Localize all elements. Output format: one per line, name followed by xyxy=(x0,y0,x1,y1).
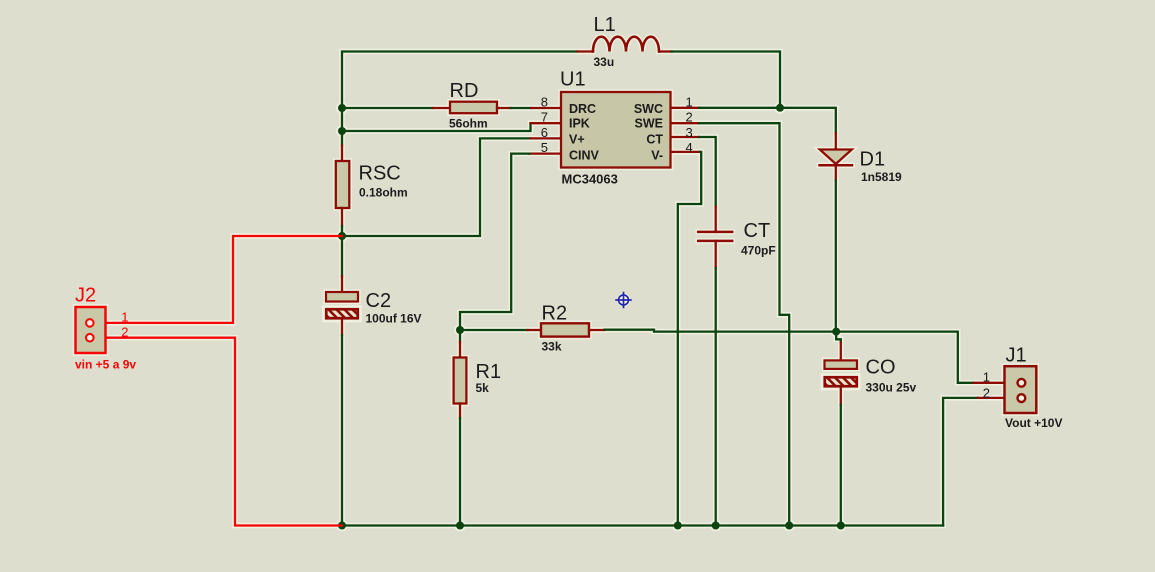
svg-text:CO: CO xyxy=(866,357,896,379)
U1 reference label xyxy=(560,69,586,91)
capacitor C2 negative hatched plate xyxy=(324,308,365,320)
wire R1 bottom to ground rail xyxy=(459,418,461,526)
wire RD to U1 pin 8 xyxy=(511,107,532,109)
pin 8 stub of U1 xyxy=(531,107,561,109)
wire R2 right pin stub xyxy=(589,329,605,331)
CO bottom pin stub xyxy=(840,387,842,405)
C2 bottom pin stub xyxy=(341,319,343,336)
node D junction dot (R1 / R2 / CINV) xyxy=(456,326,464,334)
svg-text:IPK: IPK xyxy=(569,117,590,131)
svg-text:3: 3 xyxy=(686,125,693,140)
svg-text:CT: CT xyxy=(646,133,663,147)
wire SWC: U1 pin1 to D1 anode xyxy=(699,108,836,133)
J1 pin 1 circle xyxy=(1018,379,1026,387)
J1 value label Vout +10V xyxy=(1005,416,1062,430)
svg-text:2: 2 xyxy=(983,385,990,400)
svg-text:SWE: SWE xyxy=(635,117,663,131)
svg-text:1n5819: 1n5819 xyxy=(861,170,902,184)
svg-text:7: 7 xyxy=(541,110,548,125)
svg-text:D1: D1 xyxy=(860,149,886,171)
svg-text:MC34063: MC34063 xyxy=(562,171,618,186)
svg-text:8: 8 xyxy=(541,94,548,109)
RD value label 56ohm xyxy=(449,117,488,131)
D1 reference label xyxy=(860,149,886,171)
svg-text:R2: R2 xyxy=(542,302,568,324)
pin 5 stub of U1 xyxy=(529,152,561,154)
svg-text:5k: 5k xyxy=(476,381,490,395)
U1 pin numbers xyxy=(541,94,693,155)
wire J1 pin 2 to ground rail xyxy=(943,398,978,526)
svg-text:RD: RD xyxy=(450,80,479,102)
resistor RSC body xyxy=(336,161,350,208)
J1 reference label xyxy=(1006,345,1027,367)
J2 reference label xyxy=(75,285,96,307)
CO reference label xyxy=(866,357,896,379)
pin 6 stub of U1 xyxy=(530,137,561,139)
node E junction dot (L1 right / SWC) xyxy=(776,104,784,112)
D1 cathode stub xyxy=(835,165,837,180)
R2 value label 33k xyxy=(542,340,562,354)
RSC top pin stub xyxy=(341,146,343,162)
J2 pin 2 circle xyxy=(86,334,94,342)
svg-text:J1: J1 xyxy=(1006,345,1027,367)
resistor R1 body xyxy=(454,358,467,404)
connector J1 body xyxy=(1005,366,1037,413)
wire J2 pin 1 red feed to node C xyxy=(90,236,342,323)
D1 value label 1n5819 xyxy=(861,170,902,184)
wire RD row: node A to RD left terminal xyxy=(342,107,433,109)
CO top pin stub xyxy=(840,343,842,361)
svg-text:2: 2 xyxy=(686,110,693,125)
J1 pin number 1 xyxy=(983,370,990,385)
svg-text:vin +5 a 9v: vin +5 a 9v xyxy=(75,357,136,371)
svg-text:1: 1 xyxy=(686,94,693,109)
C2 value label 100uf 16V xyxy=(366,311,422,325)
wire R2 left pin stub xyxy=(528,329,542,331)
svg-text:470pF: 470pF xyxy=(741,244,776,258)
pin 4 stub of U1 (V-) xyxy=(669,151,700,153)
D1 anode stub xyxy=(835,133,837,150)
R1 bottom pin stub xyxy=(459,404,461,419)
svg-text:L1: L1 xyxy=(594,14,616,36)
L1 value label 33u xyxy=(594,55,615,69)
connector J2 body (highlighted red) xyxy=(76,307,106,353)
J1 pin 2 circle xyxy=(1018,394,1026,402)
J2 value label vin +5 a 9v xyxy=(75,357,136,371)
resistor R2 body xyxy=(541,323,589,336)
op-amp / converter IC U1 body xyxy=(561,92,671,168)
wire RD left pin stub xyxy=(433,107,450,109)
inductor L1 xyxy=(578,37,672,52)
pin 7 stub of U1 xyxy=(531,122,562,124)
RSC value label 0.18ohm xyxy=(359,186,408,200)
svg-text:Vout +10V: Vout +10V xyxy=(1005,416,1062,430)
wire L1 left segment (top rail from node A to inductor) xyxy=(342,52,578,109)
node F junction dot (D1 / CO / output run) xyxy=(832,328,840,336)
CT bottom pin stub xyxy=(715,241,717,268)
svg-text:4: 4 xyxy=(686,140,693,155)
node C junction dot (RSC / V+ / C2 / J2 feed) xyxy=(338,232,346,240)
CT value label 470pF xyxy=(741,244,776,258)
wire node A down to node B xyxy=(341,108,343,131)
wire J2 pin 2 red feed to ground rail xyxy=(90,338,342,526)
wire D1 cathode down to node F xyxy=(835,181,837,332)
svg-text:V+: V+ xyxy=(569,133,585,147)
wire CO top jog from node F xyxy=(836,332,841,343)
wire CINV: U1 pin 5 down to node D xyxy=(460,154,529,330)
CO value label 330u 25v xyxy=(866,380,917,394)
svg-text:1: 1 xyxy=(121,310,128,325)
diode D1 xyxy=(820,150,853,166)
svg-text:0.18ohm: 0.18ohm xyxy=(359,186,408,200)
wire C2 bottom to ground rail xyxy=(341,335,343,526)
wire CO bottom to ground rail xyxy=(840,405,842,526)
J1 pin 2 stub xyxy=(978,397,1017,399)
CT top pin stub xyxy=(715,207,717,232)
wire node C down to C2 xyxy=(341,236,343,277)
svg-text:56ohm: 56ohm xyxy=(449,117,488,131)
resistor RD body xyxy=(450,102,497,114)
svg-text:SWC: SWC xyxy=(634,102,663,116)
wire RD right pin stub xyxy=(497,107,511,109)
svg-text:RSC: RSC xyxy=(359,162,401,184)
svg-text:V-: V- xyxy=(651,148,663,162)
capacitor CT plates xyxy=(698,232,732,241)
R2 reference label xyxy=(542,302,568,324)
svg-text:DRC: DRC xyxy=(569,102,596,116)
J1 pin number 2 xyxy=(983,385,990,400)
svg-text:2: 2 xyxy=(121,324,128,339)
U1 value label MC34063 xyxy=(562,171,618,186)
pin 2 stub of U1 (SWE) xyxy=(669,122,699,124)
node B junction dot (IPK branch) xyxy=(338,127,346,135)
wire feedback run: R2 to J1 corner xyxy=(605,330,974,383)
wire CT bottom to ground rail xyxy=(715,268,717,525)
J2 pin number 2 xyxy=(121,324,128,339)
svg-text:100uf 16V: 100uf 16V xyxy=(366,311,422,325)
pin 1 stub of U1 (SWC) xyxy=(669,107,699,109)
svg-text:6: 6 xyxy=(541,125,548,140)
RSC reference label xyxy=(359,162,401,184)
svg-text:CINV: CINV xyxy=(569,148,600,162)
J2 pin number 1 xyxy=(121,310,128,325)
capacitor CO positive plate xyxy=(825,360,858,369)
svg-text:330u 25v: 330u 25v xyxy=(866,380,917,394)
wire L1 right segment down to SWC node xyxy=(672,52,781,108)
wire IPK: node B to U1 pin 7 xyxy=(342,123,531,131)
J1 pin 1 stub xyxy=(973,382,1017,384)
origin marker (blue crosshair) xyxy=(615,292,631,308)
C2 top pin stub xyxy=(341,277,343,293)
R1 reference label xyxy=(476,361,502,383)
svg-text:1: 1 xyxy=(983,370,990,385)
ground rail wire xyxy=(342,524,943,526)
R1 value label 5k xyxy=(476,381,490,395)
wire node D down to R1 xyxy=(459,330,461,342)
svg-text:33u: 33u xyxy=(594,55,615,69)
wire node B down to RSC top xyxy=(341,131,343,146)
svg-text:R1: R1 xyxy=(476,361,502,383)
RSC bottom pin stub xyxy=(341,208,343,226)
U1 pin names xyxy=(569,102,663,163)
svg-text:C2: C2 xyxy=(366,290,392,312)
wire SWE: U1 pin 2 down to ground rail xyxy=(699,123,789,525)
CT reference label xyxy=(744,220,771,242)
R1 top pin stub xyxy=(459,342,461,358)
wire node D to R2 left terminal xyxy=(460,329,528,331)
C2 reference label xyxy=(366,290,392,312)
svg-text:U1: U1 xyxy=(560,69,586,91)
node A junction dot (L1 / RD / RSC column) xyxy=(338,104,346,112)
wire V+: node C to U1 pin 6 xyxy=(342,138,530,236)
wire V-: U1 pin 4 down to ground rail xyxy=(678,152,701,526)
ground rail junction dots xyxy=(338,522,845,530)
J2 pin 1 circle xyxy=(86,319,94,327)
svg-text:33k: 33k xyxy=(542,340,562,354)
capacitor C2 positive plate xyxy=(326,292,358,302)
svg-text:5: 5 xyxy=(541,140,548,155)
wire CT pin to capacitor CT xyxy=(699,137,716,207)
svg-text:J2: J2 xyxy=(75,285,96,307)
L1 reference label xyxy=(594,14,616,36)
capacitor CO negative hatched plate xyxy=(823,376,864,388)
pin 3 stub of U1 (CT) xyxy=(669,136,699,138)
RD reference label xyxy=(450,80,479,102)
svg-text:CT: CT xyxy=(744,220,771,242)
wire RSC bottom to node C xyxy=(341,226,343,236)
